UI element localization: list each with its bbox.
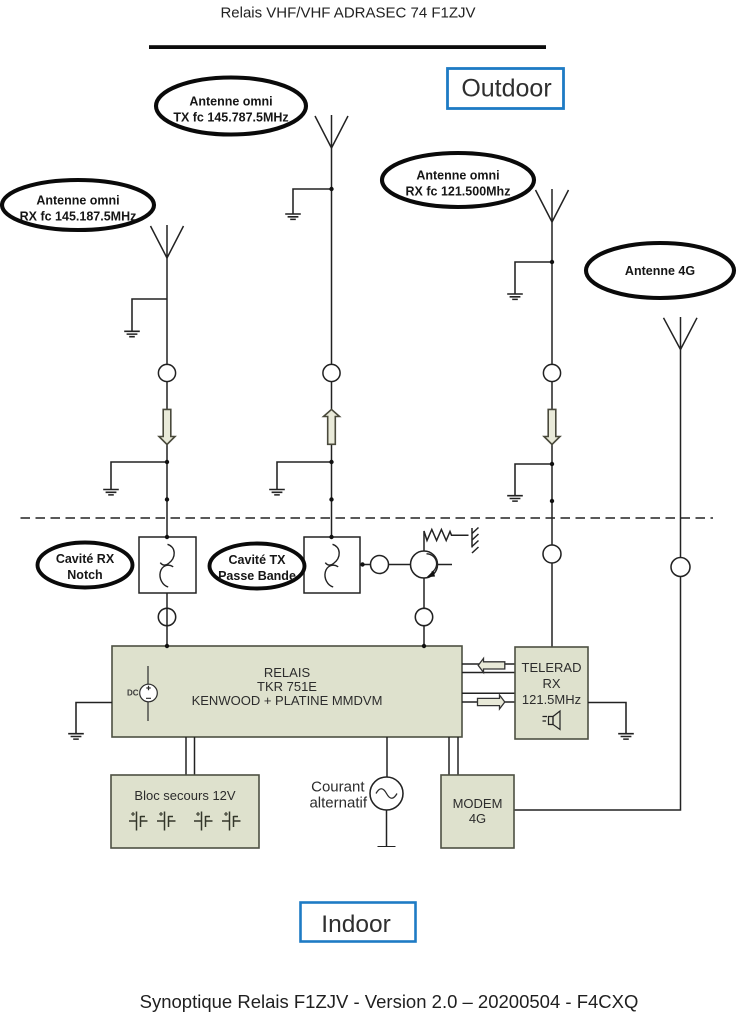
callout ellipse: Antenne omni TX fc 145.787.5MHz [156, 78, 306, 135]
bus wires RELAIS to TELERAD upper [462, 664, 515, 673]
chassis ground for R1 [472, 528, 479, 554]
top rule [149, 45, 546, 49]
svg-text:MODEM: MODEM [453, 796, 503, 811]
svg-text:RX fc 145.187.5MHz: RX fc 145.187.5MHz [20, 210, 137, 224]
svg-text:Courant: Courant [311, 779, 365, 796]
wire circulator bottom port [423, 578, 425, 609]
node at cavity TX input [329, 535, 333, 539]
callout ellipse: Antenne 4G [586, 243, 734, 298]
antenna ANT3 (RX 121.500) [536, 189, 569, 222]
svg-text:TKR 751E: TKR 751E [257, 679, 317, 694]
node on ANT3 at ground tap [550, 462, 554, 466]
wire cavity TX output stub [360, 564, 371, 566]
svg-text:Cavité TX: Cavité TX [229, 553, 287, 567]
Indoor label [301, 903, 416, 942]
svg-text:DC: DC [127, 689, 139, 698]
AC source Courant alternatif [309, 777, 403, 812]
wire circulator top port [423, 536, 425, 552]
cavity filter TX box [304, 537, 360, 593]
DC source inside RELAIS [140, 666, 158, 721]
svg-text:RX: RX [542, 676, 560, 691]
battery BT3 [194, 812, 213, 831]
connector J4 [371, 556, 389, 574]
node at cavity TX output [360, 562, 364, 566]
separator dashed line [21, 517, 714, 519]
antenna ANT1 (RX 145.187.5) [151, 225, 184, 258]
connector J8 on ANT4 feed [671, 558, 690, 577]
ground G5 tap on ANT3 feed [507, 262, 552, 299]
callout ellipse: Antenne omni RX fc 145.187.5MHz [2, 180, 154, 230]
svg-text:Antenne 4G: Antenne 4G [625, 264, 695, 278]
wire feed ANT4 to modem [514, 350, 681, 811]
node on ANT2 above separator [329, 497, 333, 501]
svg-text:Antenne omni: Antenne omni [189, 95, 272, 109]
modem box MODEM 4G [441, 775, 514, 848]
svg-text:Notch: Notch [67, 568, 102, 582]
block arrow right (TX audio) [478, 695, 505, 709]
svg-text:TX fc 145.787.5MHz: TX fc 145.787.5MHz [173, 111, 288, 125]
svg-text:Indoor: Indoor [321, 911, 390, 938]
connector J7 on ANT3 below separator [543, 545, 561, 563]
connector J5 [415, 608, 432, 625]
svg-text:Cavité RX: Cavité RX [56, 552, 115, 566]
svg-text:TELERAD: TELERAD [522, 660, 582, 675]
wire J5 to RELAIS [423, 626, 425, 646]
battery BT2 [157, 812, 176, 831]
node on ANT3 at ground tap [550, 260, 554, 264]
callout ellipse: Cavite TX Passe Bande [210, 544, 305, 589]
node at RELAIS RX input [165, 644, 169, 648]
svg-text:Antenne omni: Antenne omni [36, 194, 119, 208]
svg-text:RX fc 121.500Mhz: RX fc 121.500Mhz [406, 185, 511, 199]
wire circulator right stub [438, 564, 453, 566]
svg-text:Bloc secours 12V: Bloc secours 12V [134, 788, 235, 803]
ground G8 on RELAIS left [68, 703, 112, 740]
arrester A2 (up arrow) [324, 409, 340, 444]
battery BT4 [222, 812, 241, 831]
relay box U2 RELAIS TKR 751E [112, 646, 462, 737]
node on ANT2 at ground tap [329, 460, 333, 464]
node at RELAIS TX input [422, 644, 426, 648]
arrester A1 (down arrow) [159, 409, 175, 444]
wire J4 to circulator [389, 564, 411, 566]
node at cavity RX input [165, 535, 169, 539]
svg-text:Outdoor: Outdoor [461, 75, 551, 103]
wire feed ANT1 [166, 258, 168, 537]
ground G7 on TELERAD right [588, 703, 634, 740]
arrester A3 (down arrow) [544, 409, 560, 444]
wire cavity RX to RELAIS [166, 593, 168, 646]
node on ANT3 above separator [550, 499, 554, 503]
connector J1 [158, 364, 175, 381]
wire AC source down lead [378, 810, 396, 847]
svg-text:Relais VHF/VHF ADRASEC 74 F1ZJ: Relais VHF/VHF ADRASEC 74 F1ZJV [220, 5, 475, 22]
connector J6 [543, 364, 560, 381]
svg-text:Synoptique Relais F1ZJV - Vers: Synoptique Relais F1ZJV - Version 2.0 – … [140, 991, 639, 1012]
ground G6 tap on ANT3 feed [507, 464, 552, 501]
ground G1 tap on ANT1 feed [124, 299, 167, 337]
bus wires RELAIS to TELERAD lower [462, 693, 515, 702]
svg-text:121.5MHz: 121.5MHz [522, 692, 581, 707]
ground G2 tap on ANT1 feed [103, 462, 167, 495]
wire feed ANT2 [331, 148, 333, 537]
svg-text:KENWOOD + PLATINE MMDVM: KENWOOD + PLATINE MMDVM [192, 693, 383, 708]
svg-text:4G: 4G [469, 811, 486, 826]
callout ellipse: Cavite RX Notch [38, 543, 133, 588]
cavity filter RX box [139, 537, 196, 593]
wires RELAIS to battery block [186, 737, 195, 775]
Outdoor label [448, 69, 564, 109]
ground G3 tap on ANT2 feed [285, 189, 331, 219]
antenna ANT4 (4G) [664, 317, 698, 350]
svg-text:Passe Bande: Passe Bande [218, 569, 296, 583]
callout ellipse: Antenne omni RX fc 121.500Mhz [382, 153, 534, 207]
wire RELAIS to AC source [386, 737, 388, 780]
block arrow left (RX audio) [478, 658, 505, 672]
battery box Bloc secours 12V [111, 775, 259, 848]
svg-text:alternatif: alternatif [309, 795, 367, 812]
circulator U1 [411, 551, 438, 578]
node on ANT1 at ground tap [165, 460, 169, 464]
wires RELAIS to modem [449, 737, 458, 775]
speaker icon in TELERAD [543, 711, 561, 730]
connector J2 under cavity RX [158, 608, 175, 625]
ground G4 tap on ANT2 feed [269, 462, 331, 495]
antenna ANT2 (TX 145.787.5) [315, 115, 348, 148]
battery BT1 [129, 812, 148, 831]
svg-text:RELAIS: RELAIS [264, 665, 311, 680]
connector J3 [323, 364, 340, 381]
node on ANT1 above separator [165, 497, 169, 501]
resistor R1 [424, 530, 469, 541]
svg-text:Antenne omni: Antenne omni [416, 169, 499, 183]
node on ANT2 at ground tap [329, 187, 333, 191]
wire feed ANT3 [551, 222, 553, 647]
receiver box U3 TELERAD RX [515, 647, 588, 739]
